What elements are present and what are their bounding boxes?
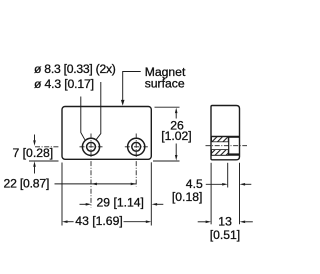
leader line ø8.3 — [96, 82, 101, 140]
dim 13 extension right — [239, 163, 241, 225]
hole H1 outer circle (ø8.3) — [82, 138, 99, 155]
arrow magnet surface — [121, 100, 125, 106]
svg-text:surface: surface — [145, 77, 185, 91]
dim 29 arrow left stub — [80, 203, 87, 205]
dim 13 right stub + arrow — [245, 221, 253, 223]
counterbore top sliver — [229, 136, 239, 138]
dim 43 line left + arrowhead — [67, 221, 74, 223]
svg-text:[0.51]: [0.51] — [210, 228, 241, 242]
hatch lower band — [212, 150, 229, 156]
hatch upper band — [212, 137, 229, 142]
side view section band bottom line — [211, 154, 240, 156]
hole H2 centerline horizontal — [125, 146, 148, 148]
dim 26 arrow up — [175, 113, 177, 119]
side view body — [211, 106, 240, 160]
dim 4.5 line + arrow right-pointing — [206, 183, 223, 185]
svg-text:22 [0.87]: 22 [0.87] — [4, 177, 50, 191]
front view body — [62, 107, 151, 160]
dim 4.5 arrow left-pointing + stub — [245, 183, 251, 185]
counterbore wall vertical line — [228, 136, 230, 155]
dim 22 arrowhead right (at hole2 centerline) — [131, 183, 137, 186]
dim 29 arrow right stub — [157, 203, 163, 205]
svg-text:13: 13 — [218, 215, 232, 229]
dim 13 extension left — [210, 163, 212, 225]
dim 4.5 extension inner — [227, 163, 229, 188]
svg-text:ø 8.3 [0.33] (2x): ø 8.3 [0.33] (2x) — [34, 62, 116, 76]
svg-text:43 [1.69]: 43 [1.69] — [75, 214, 122, 228]
hole H2 centerline vertical — [135, 134, 137, 187]
dim 7 arrow down — [34, 135, 36, 141]
svg-text:4.5: 4.5 — [186, 177, 203, 191]
dim 7 arrow up — [34, 167, 36, 174]
leader line ø4.3 — [81, 97, 85, 140]
dim 26 arrow down — [175, 144, 177, 156]
dim 43 line right + arrowhead — [124, 221, 147, 223]
counterbore bottom sliver — [229, 153, 239, 155]
svg-text:7 [0.28]: 7 [0.28] — [13, 146, 54, 160]
hole H2 inner circle (ø4.3) — [132, 142, 141, 151]
dim 22/29 line — [55, 183, 137, 185]
svg-text:[0.18]: [0.18] — [172, 190, 203, 204]
side view section band top line — [211, 135, 240, 137]
svg-text:29 [1.14]: 29 [1.14] — [97, 195, 144, 209]
hole H1 inner circle (ø4.3) — [87, 142, 96, 151]
dim 26 bottom extension — [153, 160, 180, 162]
dim 43 extension left — [61, 163, 63, 226]
dim 26 top extension — [155, 106, 180, 108]
dim 13 left stub + arrow — [198, 221, 206, 223]
hole H1 centerline vertical — [90, 134, 92, 208]
dim 7 centerline extension — [35, 146, 59, 148]
svg-text:[1.02]: [1.02] — [161, 129, 192, 143]
leader magnet surface — [123, 72, 141, 101]
dim 22 arrowhead left (at hole1 centerline) — [91, 183, 97, 186]
svg-text:ø 4.3 [0.17]: ø 4.3 [0.17] — [34, 77, 94, 91]
hole H1 centerline horizontal — [80, 146, 103, 148]
dim 43 extension right — [150, 162, 152, 225]
hole H2 outer circle (ø8.3) — [128, 138, 145, 155]
side view centerline — [206, 145, 248, 147]
dim 7 bottom extension — [29, 160, 59, 162]
